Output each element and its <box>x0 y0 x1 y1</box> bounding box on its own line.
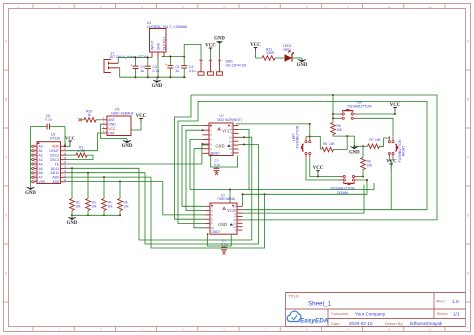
svg-text:TE: TE <box>55 162 60 166</box>
svg-text:EasyEDA: EasyEDA <box>300 318 329 325</box>
svg-text:VCC: VCC <box>386 160 397 165</box>
svg-text:VCC: VCC <box>136 114 147 119</box>
svg-text:A2: A2 <box>39 153 43 157</box>
svg-text:VCC: VCC <box>390 103 401 108</box>
svg-text:GND: GND <box>152 84 163 89</box>
svg-text:OSC1: OSC1 <box>50 158 59 162</box>
svg-text:OUTPUT: OUTPUT <box>162 37 166 50</box>
svg-text:GND: GND <box>122 144 133 149</box>
svg-text:10K: 10K <box>375 138 382 142</box>
svg-text:330R: 330R <box>266 51 275 55</box>
svg-text:10k: 10k <box>76 205 82 209</box>
svg-text:10K: 10K <box>329 142 336 146</box>
svg-text:0.1u: 0.1u <box>189 69 196 73</box>
svg-text:H34C 433MHZ: H34C 433MHZ <box>111 111 134 115</box>
svg-text:VCC: VCC <box>108 127 116 131</box>
svg-text:1.0: 1.0 <box>452 299 459 305</box>
svg-text:Your Company: Your Company <box>355 312 386 317</box>
svg-text:0.1u: 0.1u <box>214 163 220 167</box>
svg-text:JST 2AAA_Holder JSTXH: JST 2AAA_Holder JSTXH <box>109 55 149 59</box>
svg-text:B: B <box>467 98 469 102</box>
svg-text:Date:: Date: <box>331 321 341 326</box>
svg-text:RIGHT: RIGHT <box>402 146 406 156</box>
svg-text:A3: A3 <box>39 158 43 162</box>
svg-text:VCC: VCC <box>313 166 324 171</box>
svg-text:11: 11 <box>429 5 432 9</box>
svg-text:AD11: AD11 <box>51 167 59 171</box>
svg-text:VCC: VCC <box>65 135 75 140</box>
svg-text:A7: A7 <box>39 176 43 180</box>
svg-text:11: 11 <box>429 328 432 332</box>
svg-text:GND: GND <box>25 191 36 196</box>
svg-text:10k: 10k <box>108 205 114 209</box>
svg-text:TITLE:: TITLE: <box>288 294 300 299</box>
svg-text:E: E <box>5 272 7 276</box>
svg-text:1u: 1u <box>141 69 145 73</box>
svg-text:Sheet:: Sheet: <box>437 311 449 316</box>
svg-text:GND?: GND? <box>212 230 221 234</box>
svg-text:RED: RED <box>284 48 292 52</box>
svg-text:10: 10 <box>387 5 391 9</box>
svg-text:10K: 10K <box>337 128 344 132</box>
svg-text:10: 10 <box>387 328 391 332</box>
svg-text:DAT: DAT <box>108 131 115 135</box>
svg-text:Sheet_1: Sheet_1 <box>308 301 332 308</box>
svg-text:HT12E: HT12E <box>50 137 61 141</box>
svg-text:INPUT: INPUT <box>150 40 154 50</box>
svg-text:0.1u: 0.1u <box>45 118 52 122</box>
svg-text:GND: GND <box>216 144 225 149</box>
svg-text:A4: A4 <box>39 162 43 166</box>
svg-text:E: E <box>467 272 469 276</box>
svg-text:OSC2: OSC2 <box>50 153 59 157</box>
svg-text:7402 NOR(NOT): 7402 NOR(NOT) <box>217 118 242 122</box>
svg-text:R8: R8 <box>323 142 327 146</box>
svg-text:DOWN: DOWN <box>337 191 349 195</box>
svg-text:GND: GND <box>156 42 160 50</box>
svg-text:VCC: VCC <box>205 43 216 48</box>
svg-text:SS-12F44 G5: SS-12F44 G5 <box>226 64 247 68</box>
svg-text:ANT: ANT <box>108 118 115 122</box>
svg-text:GND: GND <box>67 221 78 226</box>
svg-text:0.1u: 0.1u <box>221 242 227 246</box>
svg-text:AD8: AD8 <box>52 180 59 184</box>
svg-text:DOUT: DOUT <box>49 149 59 153</box>
svg-text:Company:: Company: <box>331 311 349 316</box>
svg-text:VDD: VDD <box>52 145 60 149</box>
svg-text:A0: A0 <box>39 145 43 149</box>
svg-text:1k: 1k <box>88 113 92 117</box>
svg-text:VCC: VCC <box>250 43 261 48</box>
svg-text:kdhanushnayak: kdhanushnayak <box>410 321 443 326</box>
svg-text:Drawn By:: Drawn By: <box>385 321 403 326</box>
svg-text:A5: A5 <box>39 167 43 171</box>
svg-text:10k: 10k <box>124 205 130 209</box>
svg-text:0.1u: 0.1u <box>153 69 160 73</box>
svg-text:GND: GND <box>218 222 227 227</box>
svg-text:1u: 1u <box>175 69 179 73</box>
svg-text:10k: 10k <box>92 205 98 209</box>
svg-text:A1: A1 <box>39 149 43 153</box>
svg-text:1/1: 1/1 <box>453 312 460 317</box>
svg-text:A6: A6 <box>39 171 43 175</box>
svg-text:GND: GND <box>108 123 116 127</box>
svg-text:AD9: AD9 <box>52 176 59 180</box>
svg-text:PUSHBUTTON: PUSHBUTTON <box>296 125 300 148</box>
svg-text:GND: GND <box>349 150 360 155</box>
svg-text:GND: GND <box>297 63 308 68</box>
svg-text:REV:: REV: <box>437 299 446 304</box>
svg-text:R7: R7 <box>370 138 374 142</box>
svg-text:10K: 10K <box>367 164 374 168</box>
svg-text:2020-02-10: 2020-02-10 <box>349 321 373 326</box>
svg-text:B: B <box>5 98 7 102</box>
svg-text:7400 NAND: 7400 NAND <box>217 197 236 201</box>
svg-text:AD10: AD10 <box>51 171 60 175</box>
svg-text:GND: GND <box>214 37 225 42</box>
svg-text:PUSHBUTTON: PUSHBUTTON <box>347 105 372 109</box>
svg-text:VSS: VSS <box>39 180 47 184</box>
